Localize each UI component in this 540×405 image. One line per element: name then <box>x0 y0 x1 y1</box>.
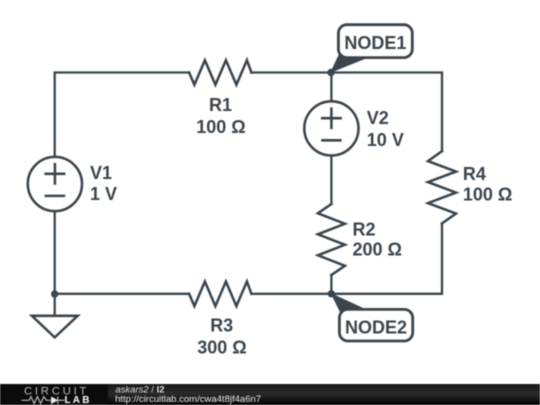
voltage source V1 <box>28 157 82 211</box>
V1 plus sign <box>46 164 64 183</box>
wire top-left (V1 to R1) <box>55 73 189 156</box>
V1 minus sign <box>46 195 64 198</box>
svg-text:R1: R1 <box>209 95 232 115</box>
resistor R1 <box>189 60 251 85</box>
CircuitLab logo resistor and diode <box>22 397 65 405</box>
svg-text:200 Ω: 200 Ω <box>353 240 402 260</box>
wire bottom-mid (node 2 to R3) <box>251 293 331 295</box>
svg-text:R3: R3 <box>210 315 233 335</box>
svg-text:V1: V1 <box>90 163 112 183</box>
wire R2 to node 2 <box>330 275 332 294</box>
wire bottom-left (ground node to R3) <box>55 293 189 295</box>
V2 plus sign <box>322 109 340 128</box>
voltage source V2 <box>304 101 358 155</box>
resistor R4 <box>428 151 456 223</box>
V2 minus sign <box>322 139 340 142</box>
svg-text:1 V: 1 V <box>90 184 117 204</box>
svg-text:R4: R4 <box>463 164 486 184</box>
svg-text:NODE1: NODE1 <box>344 33 406 53</box>
wire right-bottom (R4 to bottom corner) <box>331 223 442 293</box>
svg-text:NODE2: NODE2 <box>345 317 407 337</box>
wire top-right (node 1 to right corner) <box>331 73 442 152</box>
svg-text:100 Ω: 100 Ω <box>463 185 512 205</box>
CircuitLab logo background <box>0 384 108 405</box>
NODE2 callout tail <box>330 293 368 312</box>
NODE2 callout box <box>339 309 412 341</box>
wire V2 top <box>330 73 332 102</box>
wire V2 to R2 <box>330 156 332 205</box>
svg-text:http://circuitlab.com/cwa4t8jf: http://circuitlab.com/cwa4t8jf4a6n7 <box>115 394 261 405</box>
NODE1 callout tail <box>330 53 369 73</box>
node junction dot NODE2 <box>328 290 335 297</box>
ground junction dot <box>51 290 58 297</box>
svg-text:10 V: 10 V <box>367 130 404 150</box>
NODE1 callout box <box>338 25 412 58</box>
ground stem wire <box>54 294 56 316</box>
node junction dot NODE1 <box>327 69 334 76</box>
svg-text:100 Ω: 100 Ω <box>196 117 245 137</box>
wire top-mid (R1 to node 1) <box>251 71 331 73</box>
svg-text:R2: R2 <box>353 220 376 240</box>
wire V1 bottom <box>54 212 56 294</box>
resistor R3 <box>189 282 251 307</box>
svg-text:V2: V2 <box>367 108 389 128</box>
resistor R2 <box>318 204 345 275</box>
svg-text:LAB: LAB <box>65 395 92 405</box>
ground symbol <box>32 316 78 338</box>
svg-text:300 Ω: 300 Ω <box>197 338 246 358</box>
